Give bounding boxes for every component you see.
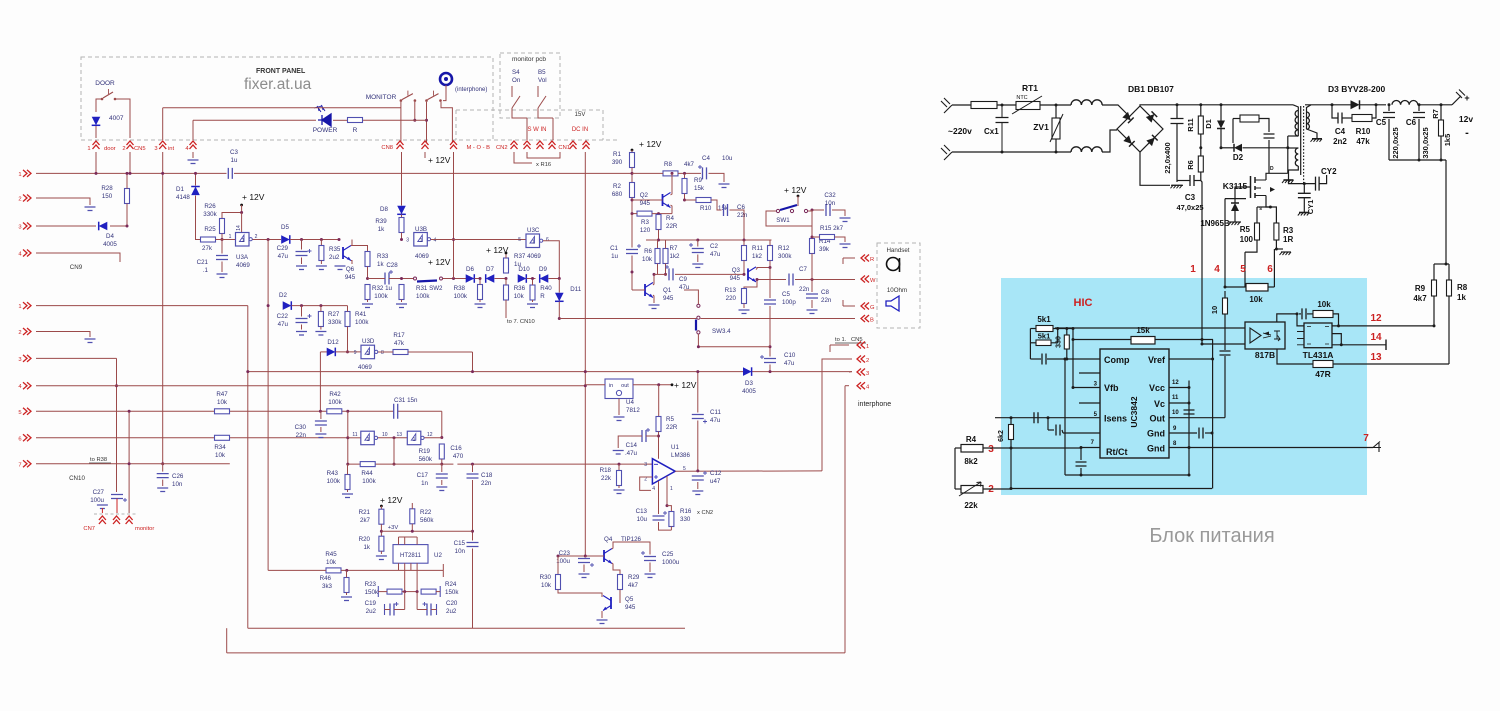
interphone jack	[440, 73, 452, 85]
wire row7	[36, 463, 230, 465]
svg-text:R28: R28	[101, 185, 113, 192]
svg-text:945: 945	[663, 295, 674, 302]
wire row1 CN10	[36, 305, 248, 307]
transistor Q6 945	[343, 246, 351, 261]
transformer secondary winding	[1306, 112, 1308, 129]
svg-text:47u: 47u	[784, 360, 795, 367]
svg-text:150k: 150k	[365, 589, 379, 596]
resistor R37 1u 4069	[504, 258, 509, 273]
svg-text:C5: C5	[782, 291, 790, 298]
snubber C4 2n2	[1338, 113, 1342, 124]
capacitor C14 .47u	[642, 430, 646, 442]
svg-text:R5: R5	[666, 416, 674, 423]
svg-text:+ 12V: + 12V	[242, 192, 265, 202]
resistor R11 psu	[1198, 116, 1203, 134]
gate U3C	[526, 234, 540, 248]
capacitor C17 1n	[441, 464, 443, 472]
IC TL431A	[1304, 323, 1332, 348]
svg-text:10u: 10u	[722, 155, 733, 162]
svg-text:C27: C27	[93, 489, 105, 496]
capacitor C8 22n	[811, 278, 814, 281]
svg-text:C25: C25	[662, 551, 674, 558]
svg-text:100k: 100k	[327, 478, 341, 485]
wire CN5 pin2 down	[129, 152, 131, 173]
svg-text:100k: 100k	[355, 319, 369, 326]
wire CN5 pin1 down	[95, 152, 97, 173]
svg-text:C1: C1	[610, 245, 618, 252]
svg-text:22k: 22k	[964, 501, 978, 510]
capacitor C7 22n	[757, 279, 786, 281]
svg-text:.1: .1	[203, 267, 209, 274]
svg-text:R11: R11	[1186, 118, 1195, 131]
capacitor C13 10u	[653, 516, 665, 520]
svg-text:Vcc: Vcc	[1149, 383, 1165, 393]
svg-text:22,0x400: 22,0x400	[1163, 142, 1172, 173]
wire R17 out to bus	[472, 352, 474, 372]
transformer aux winding	[1295, 148, 1298, 166]
svg-text:1: 1	[412, 437, 415, 443]
resistor R16 330	[667, 506, 671, 512]
svg-text:D11: D11	[570, 286, 581, 293]
vertical U3A out to D2 and R45	[267, 240, 269, 571]
svg-text:D4: D4	[106, 233, 114, 240]
resistor R12 300k	[768, 246, 773, 261]
capacitor C26 10n	[157, 474, 169, 478]
svg-text:C3: C3	[230, 149, 238, 156]
svg-text:C5: C5	[1376, 118, 1387, 127]
resistor R47 10k	[215, 409, 230, 414]
capacitor RtCt	[1076, 462, 1087, 466]
resistor R21 2k7	[379, 509, 384, 524]
svg-text:22n: 22n	[737, 212, 748, 219]
svg-text:100: 100	[1240, 235, 1254, 244]
svg-text:330k: 330k	[203, 211, 217, 218]
svg-text:CN9: CN9	[70, 264, 83, 271]
diode D4 4005	[99, 222, 108, 231]
capacitor C4 10u	[703, 167, 707, 179]
capacitor C1 1u	[631, 214, 633, 248]
switch S5	[537, 86, 539, 97]
svg-text:15k: 15k	[1136, 326, 1150, 335]
handset chevron G	[861, 303, 869, 310]
wire pin12 row	[1332, 325, 1434, 327]
svg-text:R41: R41	[355, 311, 367, 318]
svg-text:ZV1: ZV1	[1033, 122, 1049, 132]
resistor R33 1k	[365, 252, 370, 267]
diode D5	[281, 235, 290, 244]
wire door left	[96, 99, 102, 112]
svg-text:Vol: Vol	[538, 77, 547, 84]
vertical U3E input	[347, 411, 349, 464]
capacitor 22,0x400	[1171, 119, 1184, 124]
svg-text:2k7: 2k7	[360, 517, 371, 524]
wire U3E out	[378, 437, 407, 439]
resistor R4 22R	[656, 215, 661, 230]
svg-text:5k1: 5k1	[1037, 315, 1051, 324]
trimmer 22k	[961, 486, 983, 494]
svg-text:Cx1: Cx1	[984, 127, 999, 136]
svg-text:6k2: 6k2	[998, 430, 1005, 442]
svg-text:13: 13	[396, 432, 402, 438]
svg-text:to 1.: to 1.	[835, 337, 847, 343]
diode door 4007	[92, 117, 101, 126]
svg-text:Q4: Q4	[604, 536, 613, 543]
resistor R32 100k 1u	[365, 285, 370, 300]
svg-text:x R16: x R16	[536, 162, 551, 168]
diode D6	[466, 274, 475, 283]
capacitor C23 100u	[584, 556, 586, 557]
wire pin14 row	[1332, 344, 1386, 346]
wire interphone 1	[830, 344, 849, 346]
switch S4	[511, 86, 513, 97]
wire monitor pcb pins	[526, 118, 528, 140]
svg-text:47k: 47k	[394, 340, 405, 347]
resistor R46 3k3	[344, 578, 349, 593]
svg-text:D6: D6	[466, 266, 474, 273]
resistor R9 15k	[684, 173, 686, 178]
bottom bus 2	[227, 652, 845, 654]
svg-text:S4: S4	[512, 69, 520, 76]
wire int row	[163, 107, 401, 109]
svg-text:R29: R29	[628, 574, 640, 581]
svg-text:15k: 15k	[694, 185, 705, 192]
capacitor C18 22n	[471, 463, 474, 466]
svg-text:1k: 1k	[1457, 293, 1466, 302]
svg-text:HT2811: HT2811	[400, 553, 422, 559]
svg-text:C26: C26	[172, 473, 184, 480]
resistor R3 1R	[1274, 223, 1279, 240]
capacitor C3 1u	[228, 168, 232, 179]
svg-text:680: 680	[612, 191, 623, 198]
wire Q3 emitter	[744, 280, 757, 290]
svg-text:+ 12V: + 12V	[784, 185, 807, 195]
resistor R34 10k	[215, 435, 230, 440]
svg-text:monitor pcb: monitor pcb	[512, 56, 546, 63]
svg-text:-: -	[1465, 127, 1469, 139]
wire gate supply pin	[241, 213, 243, 233]
vertical between gates down	[393, 438, 395, 464]
svg-text:12: 12	[1172, 380, 1179, 386]
svg-text:R6: R6	[644, 248, 652, 255]
bridge diode 3	[1123, 135, 1134, 146]
svg-text:R11: R11	[752, 245, 763, 252]
svg-text:Out: Out	[1150, 414, 1166, 424]
capacitor C19 2u2	[404, 592, 406, 610]
HT2811 top pins	[398, 537, 400, 545]
svg-text:~220v: ~220v	[948, 126, 972, 136]
capacitor C22 47u	[300, 304, 303, 307]
svg-text:DC IN: DC IN	[572, 127, 588, 133]
capacitor on out line	[1220, 351, 1231, 355]
svg-text:U1: U1	[671, 444, 679, 451]
transformer primary winding	[1297, 111, 1299, 137]
svg-text:10k: 10k	[642, 256, 653, 263]
svg-text:330k: 330k	[328, 319, 342, 326]
resistor R20 1k	[379, 536, 384, 551]
svg-text:C6: C6	[1406, 118, 1417, 127]
wire Q2 base	[632, 199, 663, 201]
svg-text:to 7. CN10: to 7. CN10	[507, 319, 535, 325]
svg-text:int: int	[168, 146, 175, 152]
svg-text:7: 7	[1363, 433, 1369, 444]
svg-text:7: 7	[18, 462, 21, 468]
svg-text:R2: R2	[613, 183, 621, 190]
resistor R24 150k	[421, 589, 436, 594]
resistor R25 27k	[201, 237, 216, 242]
wire pin1 vertical from R6	[1201, 181, 1202, 345]
wire pin3 row	[983, 447, 1081, 449]
wire ac bottom	[952, 151, 1071, 153]
resistor R14 39k	[810, 239, 815, 254]
svg-text:u47: u47	[710, 478, 721, 485]
svg-text:4069: 4069	[236, 262, 250, 269]
svg-text:1000u: 1000u	[662, 559, 680, 566]
svg-text:220: 220	[726, 295, 737, 302]
transistor Q5 945	[603, 596, 611, 611]
svg-text:3: 3	[406, 238, 409, 244]
svg-text:945: 945	[625, 604, 636, 611]
svg-text:R: R	[870, 257, 874, 263]
vertical CN7 monitor	[128, 411, 130, 513]
svg-text:14: 14	[1370, 332, 1382, 343]
svg-text:DB1 DB107: DB1 DB107	[1128, 84, 1174, 94]
svg-text:(interphone): (interphone)	[455, 87, 487, 93]
bottom rail 475	[1065, 474, 1189, 476]
chip wire Vfb	[1073, 387, 1100, 389]
svg-text:10k: 10k	[541, 582, 552, 589]
wire row2 ground	[36, 332, 90, 338]
svg-text:1: 1	[866, 344, 869, 350]
resistor R8 1k	[1447, 280, 1452, 296]
svg-text:C2: C2	[710, 243, 718, 250]
svg-text:8k2: 8k2	[964, 457, 978, 466]
svg-text:R1: R1	[613, 151, 621, 158]
capacitor C21 .1	[221, 240, 223, 254]
resistor R42 100k	[327, 409, 342, 414]
svg-text:R3: R3	[641, 219, 649, 226]
svg-text:10n: 10n	[825, 200, 836, 207]
svg-text:D8: D8	[380, 206, 388, 213]
capacitor C3 47,0x25	[1190, 175, 1194, 186]
svg-text:FRONT PANEL: FRONT PANEL	[256, 68, 306, 75]
wire Q4 base row	[558, 555, 604, 557]
svg-text:11: 11	[352, 432, 357, 438]
svg-text:R4: R4	[966, 435, 977, 444]
resistor R15 2k7	[820, 235, 835, 240]
wire Q6 collector to R33	[352, 246, 368, 252]
svg-text:fixer.at.ua: fixer.at.ua	[244, 76, 312, 93]
svg-text:C18: C18	[481, 472, 493, 479]
svg-text:47k: 47k	[1356, 137, 1370, 146]
svg-text:R32 1u: R32 1u	[372, 285, 393, 292]
wire Q1 collector	[653, 274, 654, 285]
wire Out right	[1169, 417, 1225, 419]
svg-text:CN2: CN2	[496, 145, 508, 151]
svg-text:D3: D3	[745, 380, 753, 387]
svg-text:15V: 15V	[575, 112, 586, 118]
wire interphone 4	[845, 385, 849, 387]
svg-text:1u: 1u	[231, 157, 238, 164]
wire row3	[36, 357, 117, 359]
resistor 15k	[1131, 337, 1155, 345]
rail +3V	[381, 530, 472, 532]
svg-text:10n: 10n	[172, 481, 183, 488]
diode D7	[486, 274, 495, 283]
svg-text:4k7: 4k7	[1413, 294, 1427, 303]
svg-text:1R: 1R	[1283, 235, 1293, 244]
svg-text:945: 945	[730, 275, 741, 282]
wire chevron4 to led	[192, 120, 194, 140]
svg-text:R16: R16	[680, 508, 692, 515]
left connector CN10	[23, 302, 31, 309]
svg-text:C4: C4	[1335, 127, 1346, 136]
chip stub pin 2	[1079, 372, 1100, 374]
resistor R44 100k	[360, 462, 375, 467]
compensation capacitor	[1042, 354, 1046, 365]
svg-text:R22: R22	[420, 509, 432, 516]
svg-text:10k: 10k	[215, 452, 226, 459]
capacitor feedback	[1302, 308, 1306, 319]
top bus wire	[36, 172, 227, 174]
svg-text:47u: 47u	[710, 417, 721, 424]
svg-text:330,0x25: 330,0x25	[1421, 127, 1430, 158]
wire Q3 collector	[756, 268, 770, 270]
svg-text:1: 1	[366, 351, 369, 357]
svg-text:10u: 10u	[637, 516, 648, 523]
svg-text:NTC: NTC	[1016, 95, 1027, 101]
svg-text:1: 1	[241, 238, 244, 244]
HT2811 bottom pins	[398, 563, 400, 570]
svg-text:560k: 560k	[420, 517, 434, 524]
svg-text:On: On	[512, 77, 521, 84]
svg-text:D5: D5	[281, 224, 289, 231]
svg-text:150: 150	[102, 193, 113, 200]
svg-text:5: 5	[1240, 264, 1246, 275]
svg-text:1k5: 1k5	[1443, 134, 1452, 147]
svg-text:2: 2	[18, 197, 21, 203]
svg-text:CN5: CN5	[134, 146, 146, 152]
svg-text:1: 1	[18, 172, 21, 178]
IC HT2811 U2	[393, 545, 428, 564]
svg-text:C11: C11	[710, 409, 721, 416]
capacitor C10 47u	[769, 347, 771, 357]
capacitor C2 47u	[697, 240, 699, 247]
handset dashed box	[877, 243, 920, 328]
svg-text:R44: R44	[361, 470, 373, 477]
svg-text:+ 12V: + 12V	[639, 139, 662, 149]
svg-text:R20: R20	[359, 536, 371, 543]
resistor R3 120	[637, 211, 652, 216]
resistor R39 1k	[399, 218, 404, 233]
handset chevron B	[861, 315, 869, 322]
capacitor C5 100p	[769, 268, 771, 299]
svg-text:D7: D7	[486, 266, 494, 273]
svg-text:C16: C16	[450, 445, 462, 452]
svg-text:6: 6	[18, 436, 21, 442]
svg-text:10k: 10k	[1249, 295, 1263, 304]
svg-text:1k: 1k	[363, 544, 370, 551]
svg-text:Handset: Handset	[886, 247, 909, 254]
resistor R11 1k2	[742, 246, 747, 261]
svg-text:27k: 27k	[202, 245, 213, 252]
svg-text:U4: U4	[626, 399, 634, 406]
row y240	[646, 239, 772, 241]
svg-text:C19: C19	[365, 600, 377, 607]
wire R41 to D12 row	[347, 327, 349, 352]
resistor 10k feedback	[1313, 311, 1333, 318]
svg-text:1k2: 1k2	[752, 253, 763, 260]
svg-text:6: 6	[1267, 264, 1273, 275]
svg-text:R37 4069: R37 4069	[514, 253, 541, 260]
resistor R6 psu	[1198, 156, 1203, 172]
svg-text:C9: C9	[679, 276, 687, 283]
bridge diode 4	[1146, 135, 1157, 146]
svg-text:100k: 100k	[328, 399, 342, 406]
choke output	[1392, 101, 1418, 105]
capacitor C9 47u	[654, 273, 667, 275]
svg-text:D1: D1	[1204, 119, 1213, 129]
transistor Q2 945	[663, 193, 671, 208]
svg-text:11: 11	[1172, 395, 1179, 401]
chip stub pin cap	[1063, 432, 1100, 434]
svg-text:+: +	[1464, 93, 1469, 103]
svg-text:R17: R17	[393, 332, 405, 339]
svg-text:R47: R47	[216, 391, 228, 398]
switch SW2	[414, 277, 417, 280]
svg-text:1: 1	[366, 437, 369, 443]
wire row B	[559, 318, 696, 320]
bridge diode 2	[1146, 111, 1157, 122]
wire 47R pin13 row	[1277, 349, 1313, 364]
ground U4	[618, 399, 620, 416]
svg-text:120: 120	[640, 227, 651, 234]
mid bus wire y371	[248, 371, 743, 373]
svg-text:C4: C4	[702, 155, 710, 162]
capacitor C25 1000u	[612, 542, 650, 555]
optocoupler 817B	[1245, 322, 1285, 349]
svg-text:100p: 100p	[782, 299, 796, 306]
svg-text:2: 2	[18, 330, 21, 336]
svg-text:Gnd: Gnd	[1147, 429, 1165, 439]
wire CN9 pin4	[36, 253, 120, 262]
diode D1 4148	[195, 173, 197, 185]
svg-text:SW3.4: SW3.4	[712, 328, 731, 335]
svg-text:in: in	[609, 383, 613, 389]
svg-text:100k: 100k	[362, 478, 376, 485]
svg-text:x CN2: x CN2	[697, 510, 713, 516]
gate U3B	[414, 233, 428, 247]
svg-text:R46: R46	[320, 575, 332, 582]
svg-text:C32: C32	[824, 192, 836, 199]
handset speaker icon	[886, 296, 899, 311]
svg-text:1: 1	[87, 146, 90, 152]
svg-text:R39: R39	[375, 218, 387, 225]
svg-text:Q5: Q5	[625, 596, 634, 603]
svg-text:3: 3	[988, 444, 994, 455]
vertical CN1 long	[584, 152, 586, 556]
svg-text:5: 5	[18, 410, 21, 416]
svg-text:C8: C8	[821, 289, 829, 296]
wire Vc right	[1169, 402, 1189, 404]
ground CN7 pin1	[97, 505, 108, 509]
svg-text:Q6: Q6	[346, 266, 355, 273]
svg-text:10Ohm: 10Ohm	[887, 287, 907, 294]
svg-text:R10: R10	[1356, 127, 1371, 136]
svg-text:C21: C21	[197, 259, 209, 266]
capacitor C32 10n	[826, 204, 830, 216]
resistor R13 220	[742, 289, 747, 304]
svg-text:G: G	[870, 305, 875, 311]
